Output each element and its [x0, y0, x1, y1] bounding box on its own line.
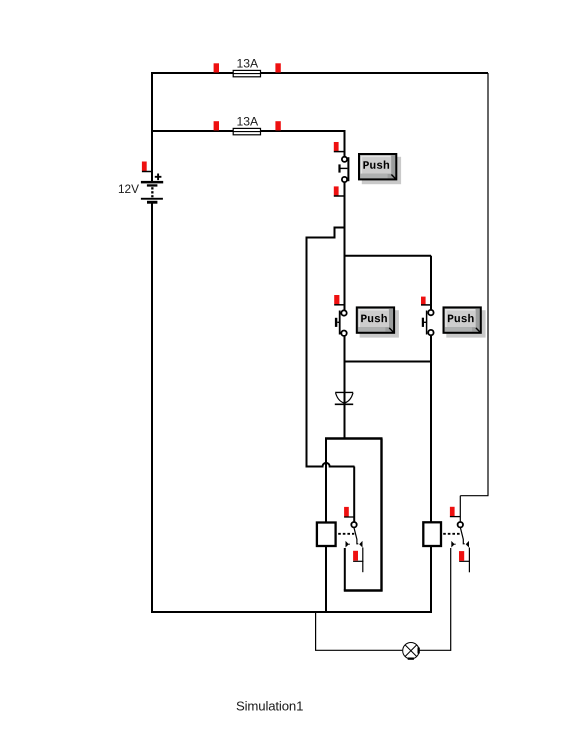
svg-text:13A: 13A: [237, 57, 260, 71]
svg-text:Simulation1: Simulation1: [236, 699, 303, 714]
svg-text:13A: 13A: [237, 115, 260, 129]
svg-text:12V: 12V: [118, 182, 139, 196]
